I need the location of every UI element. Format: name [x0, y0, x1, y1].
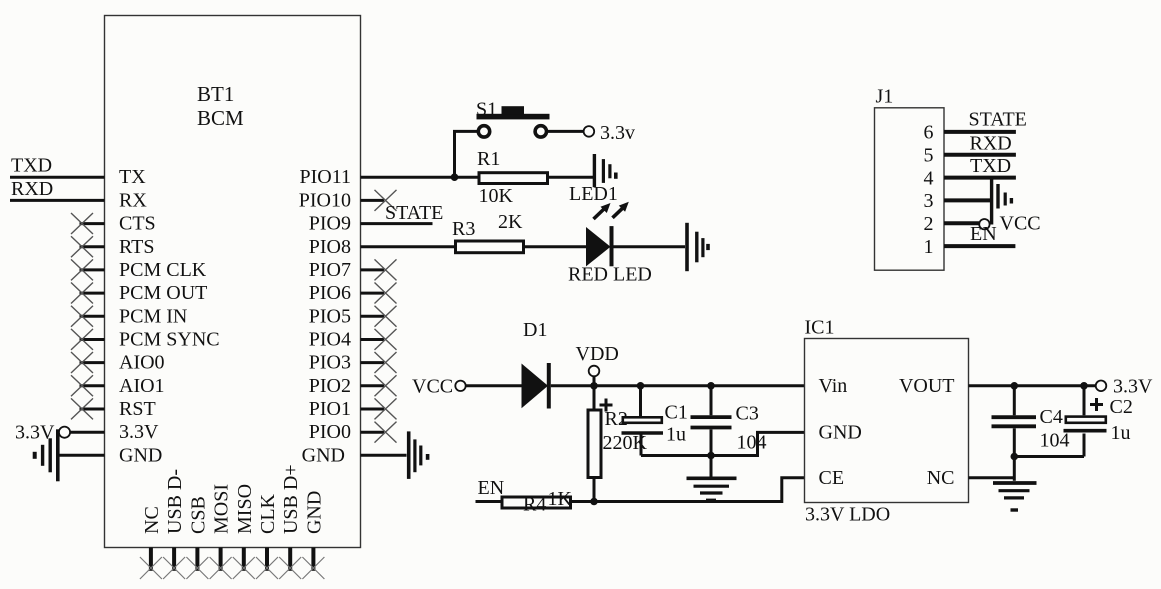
junction PIO11/S1	[451, 173, 459, 181]
capacitor C2 (polarized)	[1064, 386, 1133, 457]
wire S1 branch	[455, 131, 479, 177]
svg-text:RX: RX	[119, 189, 147, 211]
IC1 regulator body	[805, 316, 969, 525]
ground symbol left (sideways, pointing left)	[35, 429, 58, 481]
svg-text:3.3V: 3.3V	[119, 421, 159, 443]
svg-text:C4: C4	[1040, 406, 1063, 428]
svg-text:3.3V LDO: 3.3V LDO	[805, 504, 890, 526]
GND pin wire left	[58, 454, 105, 457]
svg-text:RXD: RXD	[970, 132, 1012, 154]
svg-text:MOSI: MOSI	[211, 484, 233, 534]
resistor R3	[452, 211, 524, 253]
wire EN to CE pin	[594, 478, 805, 502]
svg-text:BT1: BT1	[197, 82, 234, 106]
VDD terminal	[576, 343, 619, 386]
LED diode RED LED	[568, 226, 652, 285]
svg-text:PCM IN: PCM IN	[119, 305, 187, 327]
svg-text:CE: CE	[819, 467, 845, 489]
svg-text:PIO9: PIO9	[309, 213, 351, 235]
svg-text:TXD: TXD	[970, 155, 1011, 177]
connector J1	[875, 85, 945, 270]
wire PIO8 to R3	[361, 245, 455, 248]
svg-text:C1: C1	[665, 401, 688, 423]
wire RXD to RX pin	[10, 199, 105, 202]
IC BT1 body	[105, 16, 361, 548]
svg-text:NC: NC	[927, 467, 955, 489]
svg-text:6: 6	[924, 122, 934, 144]
LED arrows	[594, 202, 629, 219]
ground below C3	[687, 478, 737, 500]
svg-text:GND: GND	[819, 422, 862, 444]
junction VDD/R2	[590, 382, 598, 390]
wire LED to ground	[614, 245, 686, 248]
pushbutton S1	[476, 99, 550, 138]
net labels J1	[969, 108, 1041, 245]
bottom wire C1-C3 to IC1 GND	[641, 432, 805, 455]
svg-text:4: 4	[924, 167, 934, 189]
svg-text:R4: R4	[523, 493, 546, 515]
svg-text:TX: TX	[119, 166, 146, 188]
svg-text:1u: 1u	[1111, 422, 1131, 444]
svg-text:GND: GND	[303, 491, 325, 534]
capacitor C4	[992, 386, 1070, 457]
svg-text:PIO0: PIO0	[309, 421, 351, 443]
junction C3 bottom	[707, 452, 715, 460]
svg-text:USB D-: USB D-	[164, 469, 186, 534]
capacitor C1 (polarized)	[600, 386, 688, 456]
resistor R4	[502, 488, 573, 516]
svg-text:VCC: VCC	[1000, 213, 1041, 235]
svg-text:1u: 1u	[666, 423, 686, 445]
svg-text:1: 1	[924, 236, 934, 258]
resistor R2	[588, 386, 648, 502]
svg-text:GND: GND	[302, 444, 345, 466]
J1 vertical wire pin4 down	[990, 178, 993, 225]
svg-text:USB D+: USB D+	[280, 464, 302, 534]
ground at BT1 right GND (sideways right)	[409, 431, 428, 479]
VCC terminal lower rail	[412, 376, 466, 398]
svg-text:PCM CLK: PCM CLK	[119, 259, 207, 281]
no-connect X marks bottom pins	[140, 557, 325, 579]
svg-text:PCM SYNC: PCM SYNC	[119, 329, 220, 351]
wire TXD to TX pin	[10, 176, 105, 179]
wire C4 junction down to ground	[1013, 457, 1016, 481]
svg-text:3: 3	[924, 190, 934, 212]
svg-text:PIO2: PIO2	[309, 375, 351, 397]
wire C3 junction to ground	[710, 456, 713, 477]
VCC terminal at J1 pin2	[979, 219, 989, 229]
svg-text:Vin: Vin	[819, 375, 848, 397]
svg-text:D1: D1	[523, 319, 547, 341]
svg-text:R3: R3	[452, 218, 475, 240]
svg-text:PIO6: PIO6	[309, 282, 351, 304]
ground at R1 (sideways right)	[594, 154, 615, 187]
svg-text:RXD: RXD	[11, 178, 53, 200]
bottom pin stubs of BT1	[151, 548, 314, 571]
svg-text:RTS: RTS	[119, 236, 154, 258]
svg-text:CLK: CLK	[257, 493, 279, 534]
wire NC pin	[969, 476, 1015, 479]
svg-text:AIO1: AIO1	[119, 375, 165, 397]
3.3V output terminal	[1096, 381, 1107, 392]
svg-text:10K: 10K	[479, 185, 514, 207]
svg-text:2K: 2K	[498, 211, 523, 233]
svg-text:3.3v: 3.3v	[600, 122, 635, 144]
svg-text:PCM OUT: PCM OUT	[119, 282, 207, 304]
svg-text:PIO11: PIO11	[300, 166, 351, 188]
svg-text:CTS: CTS	[119, 213, 156, 235]
capacitor C3	[691, 386, 767, 456]
diode D1	[522, 319, 549, 409]
svg-text:R1: R1	[477, 148, 500, 170]
left pin stubs CTS..RST	[80, 224, 105, 409]
svg-text:104: 104	[737, 431, 767, 453]
svg-text:EN: EN	[970, 223, 997, 245]
resistor R1	[477, 148, 548, 207]
wire R4 to junction	[572, 500, 594, 503]
right pin stubs with X (PIO10, PIO7..PIO0)	[361, 200, 385, 432]
wire R3 to LED	[525, 245, 586, 248]
svg-text:PIO4: PIO4	[309, 329, 351, 351]
svg-text:J1: J1	[876, 85, 894, 107]
3.3V terminal on left	[15, 422, 105, 444]
svg-text:RST: RST	[119, 398, 156, 420]
svg-text:STATE: STATE	[385, 202, 443, 224]
svg-text:104: 104	[1040, 429, 1070, 451]
pin labels left side of BT1	[119, 166, 220, 466]
J1 pin wires	[944, 132, 1016, 246]
wire VCC to D1	[466, 384, 522, 387]
svg-text:PIO8: PIO8	[309, 236, 351, 258]
svg-text:5: 5	[924, 145, 934, 167]
no-connect X marks on right pins	[375, 190, 397, 443]
ground at LED (sideways right)	[687, 223, 708, 271]
svg-text:C2: C2	[1110, 396, 1133, 418]
svg-text:1K: 1K	[548, 488, 573, 510]
wire EN to R4	[476, 500, 501, 503]
no-connect X marks on left pins	[71, 213, 93, 419]
junction R2 bottom	[590, 498, 598, 506]
ground at J1 (sideways right)	[998, 184, 1011, 209]
junction C4 top	[1011, 382, 1019, 390]
wire PIO9 STATE stub	[361, 222, 433, 225]
junction C3 top	[707, 382, 715, 390]
svg-text:STATE: STATE	[969, 108, 1027, 130]
svg-text:GND: GND	[119, 444, 162, 466]
svg-text:PIO1: PIO1	[309, 398, 351, 420]
svg-text:TXD: TXD	[11, 155, 52, 177]
svg-text:MISO: MISO	[234, 484, 256, 534]
svg-text:PIO5: PIO5	[309, 305, 351, 327]
svg-text:NC: NC	[141, 506, 163, 534]
svg-text:PIO10: PIO10	[299, 189, 351, 211]
bottom pin labels (vertical)	[141, 464, 325, 534]
ground below C4/NC	[993, 483, 1037, 510]
svg-text:VDD: VDD	[576, 343, 619, 365]
svg-text:LED1: LED1	[569, 183, 618, 205]
pin labels right side of BT1	[299, 166, 351, 466]
svg-text:VOUT: VOUT	[899, 375, 955, 397]
svg-text:3.3V: 3.3V	[1113, 376, 1153, 398]
svg-text:BCM: BCM	[197, 106, 244, 130]
J1 pin numbers	[924, 122, 934, 258]
svg-text:CSB: CSB	[187, 496, 209, 534]
svg-text:VCC: VCC	[412, 376, 453, 398]
svg-text:AIO0: AIO0	[119, 352, 165, 374]
junction C4 bottom	[1011, 453, 1019, 461]
3.3v terminal	[584, 126, 595, 137]
svg-text:RED LED: RED LED	[568, 263, 652, 285]
svg-text:EN: EN	[478, 477, 505, 499]
wire S1 to 3.3v terminal	[547, 130, 584, 133]
svg-text:PIO3: PIO3	[309, 352, 351, 374]
wire PIO11 to R1	[361, 176, 478, 179]
BT1 right GND pin wire	[361, 454, 407, 457]
junction C2 top	[1080, 382, 1088, 390]
svg-text:C3: C3	[736, 402, 759, 424]
svg-text:IC1: IC1	[805, 316, 835, 338]
wire VOUT rail	[969, 384, 1096, 387]
wire R1 to ground	[549, 176, 593, 179]
svg-text:2: 2	[924, 213, 934, 235]
svg-text:PIO7: PIO7	[309, 259, 351, 281]
wire D1 to Vin rail	[551, 384, 805, 387]
junction C1 top	[637, 382, 645, 390]
wire C2 bottom to C4 junction	[1014, 455, 1084, 458]
